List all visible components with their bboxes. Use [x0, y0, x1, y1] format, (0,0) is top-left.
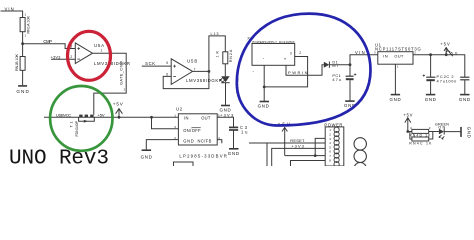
svg-text:+3V3: +3V3	[220, 113, 234, 118]
wire RN1A bottom to junction	[22, 32, 24, 44]
svg-text:GND: GND	[390, 97, 401, 102]
wire LED to ground	[444, 131, 461, 133]
svg-text:7: 7	[194, 67, 196, 71]
svg-text:1: 1	[397, 65, 399, 69]
wire resistors to LED	[429, 132, 439, 140]
svg-text:+: +	[284, 57, 287, 62]
svg-text:PWRIN: PWRIN	[288, 70, 308, 75]
svg-text:+5V: +5V	[98, 112, 105, 117]
diode D1 M7	[324, 61, 339, 68]
svg-text:GND: GND	[425, 97, 436, 102]
wire PC1 to ground	[349, 80, 351, 101]
wire C3 to ground	[233, 130, 235, 149]
wire output up to L13 stub	[209, 36, 225, 72]
wire U5B output	[193, 70, 209, 72]
junction U5B output node	[208, 70, 211, 73]
transistor T1 FDN340P	[69, 115, 94, 137]
wire RESET to header pin5	[249, 143, 325, 166]
regulator U2 LP2985-33DBVR	[174, 106, 227, 158]
svg-text:-: -	[253, 69, 255, 74]
wire U1 OUT +5V rail	[413, 55, 465, 77]
wire X1 minus pin to ground	[263, 65, 265, 101]
header ICSP box (bottom edge, partial)	[174, 162, 194, 166]
ground GND (U1)	[390, 95, 401, 103]
svg-text:VIN: VIN	[355, 50, 365, 55]
svg-text:ON/OFF: ON/OFF	[183, 128, 201, 133]
ground GND (PC1)	[344, 101, 355, 108]
wire U1 GND pin to ground	[394, 64, 396, 94]
svg-text:CMP: CMP	[43, 39, 52, 44]
power +5V arrow (POWER header)	[278, 121, 290, 155]
wire X1 pin3 sleeve to minus net	[264, 57, 307, 87]
ground GND (rotated, right edge)	[461, 127, 471, 138]
svg-text:GND: GND	[228, 151, 239, 156]
svg-text:GATE_CMD: GATE_CMD	[118, 61, 123, 85]
svg-text:RESET: RESET	[290, 138, 305, 143]
marker red ellipse (around U5A)	[68, 31, 111, 80]
ground GND (U2)	[141, 150, 152, 159]
header POWER	[324, 122, 343, 166]
capacitor PC2 47u (polarized)	[423, 55, 446, 84]
box bottom-right (partial component)	[291, 161, 326, 167]
svg-text:8: 8	[329, 158, 331, 162]
power +5V arrow (at U1 OUT)	[440, 41, 458, 56]
wire junction to U2 ON/OFF pin	[152, 117, 179, 128]
wire PC2 to ground	[430, 81, 432, 94]
wire +3V3 stub to U5A pin2	[51, 58, 75, 60]
svg-text:RN4C 1K: RN4C 1K	[409, 142, 432, 146]
wire RN2A to LED	[224, 64, 226, 77]
marker green ellipse (around T1)	[50, 86, 112, 151]
junction +5V resistor node	[406, 130, 409, 133]
svg-text:LMV358IDGKR: LMV358IDGKR	[94, 61, 130, 66]
svg-text:47u: 47u	[437, 79, 446, 84]
svg-text:FDN340P: FDN340P	[75, 120, 79, 136]
junction X1 ground node	[263, 86, 266, 89]
svg-text:U2: U2	[176, 106, 183, 111]
resistor RN1A 10K	[20, 12, 30, 37]
junction PC2 node	[429, 53, 432, 56]
ground GND (C3)	[228, 149, 239, 156]
svg-text:UNO Rev3: UNO Rev3	[9, 148, 109, 166]
svg-text:RN2A: RN2A	[229, 49, 233, 62]
resistor RN2A 1K	[215, 49, 233, 64]
connector pads (three circles)	[354, 138, 366, 175]
wire +5V branch to header pin3	[315, 138, 325, 155]
resistor RN4D 1K	[408, 126, 431, 139]
svg-text:LP2985-33DBVR: LP2985-33DBVR	[179, 153, 227, 158]
capacitor PC1 47u (polarized)	[332, 65, 356, 82]
power +5V arrow symbol	[113, 102, 124, 118]
ground GND (below RN1B)	[16, 86, 29, 94]
wire RN1B bottom to ground	[22, 70, 24, 85]
svg-text:GND: GND	[459, 97, 470, 102]
svg-text:2: 2	[25, 12, 27, 16]
svg-text:1u: 1u	[241, 130, 247, 135]
svg-text:GND: GND	[141, 155, 152, 160]
svg-text:GND: GND	[183, 138, 194, 143]
LED green ON	[435, 122, 449, 139]
resistor RN4C 1K	[409, 137, 432, 146]
ground GND (PC2)	[425, 95, 436, 103]
wire CMP junction to U5A pin3	[23, 44, 76, 49]
ground GND (C2)	[459, 95, 470, 103]
wire U2 NC/FB stub	[217, 140, 222, 144]
svg-text:5: 5	[166, 61, 168, 65]
svg-text:+5V: +5V	[403, 112, 412, 117]
op-amp U5A	[70, 43, 130, 66]
svg-text:NC/FB: NC/FB	[198, 138, 212, 143]
svg-text:GND: GND	[466, 127, 471, 138]
resistor RN1B 10K	[15, 44, 25, 71]
svg-text:1K: 1K	[215, 50, 219, 57]
svg-text:2: 2	[70, 55, 72, 59]
svg-text:47u: 47u	[332, 77, 341, 82]
svg-text:SCK: SCK	[145, 61, 155, 66]
svg-text:IN: IN	[383, 54, 388, 59]
svg-text:+5V: +5V	[440, 41, 450, 46]
svg-text:T1: T1	[69, 122, 73, 128]
wire LED to ground	[225, 83, 227, 106]
wire USBVCC to +5V through T1	[44, 116, 178, 118]
svg-text:L13: L13	[211, 32, 219, 36]
svg-text:RN1A 10K: RN1A 10K	[27, 16, 31, 34]
wire U2 OUT (+3V3) to C3	[217, 117, 233, 127]
regulator U1 NCP1117ST50T3G	[374, 42, 421, 68]
svg-text:5V: 5V	[451, 52, 458, 56]
wire SCK to U5B pin5	[142, 65, 171, 67]
svg-text:IN: IN	[184, 115, 189, 120]
junction +5V arrow on wire	[118, 116, 121, 119]
capacitor C2 100n	[446, 74, 470, 83]
svg-text:2: 2	[299, 51, 301, 55]
svg-text:+5V: +5V	[113, 102, 124, 107]
svg-text:POWERSUPPLY_DC21MMX: POWERSUPPLY_DC21MMX	[252, 40, 295, 44]
junction CMP node	[21, 42, 24, 45]
svg-text:-: -	[263, 56, 265, 61]
wire C2 to ground	[464, 80, 466, 95]
junction VIN node	[349, 63, 352, 66]
svg-text:3: 3	[429, 126, 431, 130]
svg-text:3: 3	[290, 52, 292, 56]
svg-text:GND: GND	[258, 104, 269, 109]
svg-text:LMV358IDGKR: LMV358IDGKR	[186, 78, 222, 83]
wire U5B feedback loop	[163, 71, 209, 88]
wire +3V3 to header pin6	[272, 148, 326, 166]
ground GND (X1)	[258, 102, 269, 109]
svg-text:GND: GND	[16, 89, 29, 94]
wire D1 cathode to VIN junction	[329, 64, 350, 66]
junction +5V arrow node	[445, 53, 448, 56]
junction +5V header node	[314, 154, 317, 157]
wire X1 plus pin to D1 (net PWRIN)	[286, 65, 324, 76]
wire U5A output to T1 gate (net GATE_CMD)	[93, 53, 127, 115]
svg-text:ON: ON	[438, 126, 445, 130]
svg-text:U5A: U5A	[94, 43, 104, 48]
svg-text:100n: 100n	[446, 79, 457, 84]
svg-text:U5B: U5B	[187, 59, 197, 64]
svg-text:1: 1	[101, 48, 103, 52]
node VIN (top-left net label)	[5, 7, 14, 12]
svg-text:2: 2	[124, 87, 126, 91]
capacitor C3 1u	[229, 125, 248, 135]
ground GND (below yellow LED)	[220, 106, 231, 113]
svg-text:USBVCC: USBVCC	[56, 112, 71, 117]
wire VIN label to RN1A top	[1, 11, 23, 18]
connector X1 POWERSUPPLY_DC21MMX	[247, 37, 301, 75]
marker blue ellipse (around X1)	[237, 14, 371, 126]
wire VIN junction to U1 IN	[350, 55, 378, 65]
junction +5V to U2 IN node	[150, 116, 153, 119]
op-amp U5B	[166, 59, 222, 85]
svg-text:6: 6	[166, 72, 168, 76]
svg-text:OUT: OUT	[394, 54, 404, 59]
svg-text:+3V3: +3V3	[291, 143, 304, 148]
wire U2 GND pin to ground	[146, 140, 178, 150]
wire +5V to POWER header pin7	[285, 155, 326, 157]
svg-text:OUT: OUT	[201, 115, 211, 120]
svg-text:RN1B 10K: RN1B 10K	[15, 54, 19, 71]
LED yellow L (on L13)	[220, 75, 240, 93]
power +5V arrow (green LED section)	[403, 112, 412, 131]
